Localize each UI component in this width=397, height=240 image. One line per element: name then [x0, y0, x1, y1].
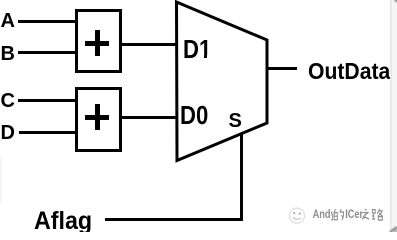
watermark logo icon [288, 206, 390, 228]
bottom-right corner gray diagonal [389, 226, 397, 232]
mux pin label D1 [183, 36, 211, 62]
watermark text Andy [312, 208, 336, 221]
wire C to adder U2 [18, 99, 75, 102]
wire A to adder U1 [18, 20, 75, 23]
adder U2 box [75, 87, 122, 152]
wire B to adder U1 [18, 51, 75, 54]
wire Aflag horizontal [105, 218, 242, 221]
svg-text:Andy: Andy [313, 209, 336, 221]
left edge faint shading [0, 158, 3, 204]
right edge light divider [390, 0, 392, 232]
mux pin label D0 [180, 102, 208, 128]
watermark text ICer [345, 208, 364, 221]
node B label [1, 44, 15, 64]
watermark glyph 之 strokes [362, 208, 369, 219]
top-right corner smudge [392, 0, 397, 4]
wire mux output [267, 67, 297, 70]
adder U2 plus sign vertical bar [95, 104, 100, 130]
node Aflag label [34, 209, 92, 234]
adder U2 plus sign horizontal bar [85, 115, 109, 120]
adder U1 plus sign horizontal bar [85, 41, 109, 46]
adder U1 box [75, 9, 122, 73]
node A label [1, 11, 15, 31]
svg-text:ICer: ICer [345, 209, 363, 221]
wire U2 output to mux D0 input [119, 116, 177, 119]
wire U1 output to mux D1 input [119, 43, 177, 46]
node D label [1, 123, 15, 143]
wire D to adder U2 [19, 131, 75, 134]
node C label [1, 91, 15, 111]
watermark glyph 路 strokes [371, 208, 382, 220]
watermark glyph 的 strokes [333, 208, 343, 220]
mux select pin label S [229, 111, 242, 131]
wire Aflag vertical to mux S pin [240, 133, 243, 221]
adder U1 plus sign vertical bar [95, 30, 100, 56]
node OutData label [308, 60, 390, 83]
white patches to remove foot serif of digit 1 (Arial-style 1) [200, 55, 204, 58]
